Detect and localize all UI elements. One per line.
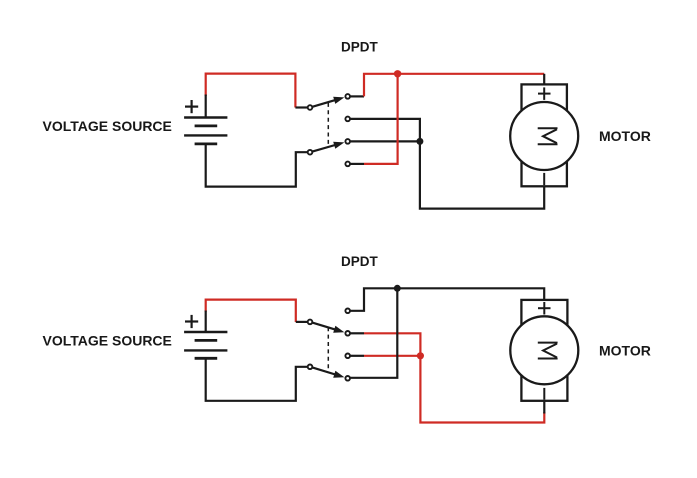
battery B2 plate short 1 (bottom circuit): [195, 339, 218, 342]
pole 2 contact circle (top circuit): [308, 150, 313, 155]
battery B1 plate short 1 (top circuit): [195, 125, 218, 128]
junction dot red (top circuit): [394, 70, 401, 77]
wire throw 2A to junction (black, top circuit): [350, 140, 420, 142]
throw 2B contact circle (bottom circuit): [345, 376, 350, 381]
wire battery top lead (black, bottom circuit): [205, 311, 207, 333]
motor M1 letter M rotated (top circuit): [538, 128, 558, 144]
junction dot red (bottom circuit): [417, 352, 424, 359]
switch S1 arm 1 arrowhead (top circuit): [333, 97, 344, 104]
pole 2 contact circle (bottom circuit): [308, 365, 313, 370]
pole 1 contact circle (bottom circuit): [308, 320, 313, 325]
switch S1 arm 1 line (top circuit): [311, 99, 339, 107]
wire battery top lead (black, top circuit): [205, 95, 207, 118]
wire motor- lead (black, bottom circuit): [543, 401, 545, 414]
junction dot black (bottom circuit): [394, 285, 401, 292]
motor M2 frame rect (bottom circuit): [521, 300, 567, 401]
svg-text:VOLTAGE SOURCE: VOLTAGE SOURCE: [43, 118, 172, 134]
battery B1 plus sign (top circuit): [185, 100, 198, 113]
battery B2 plate long 1 (bottom circuit): [184, 331, 227, 333]
switch S2 arm 2 arrowhead (bottom circuit): [333, 371, 344, 378]
wire throw 2A stub (black, bottom circuit): [350, 355, 364, 357]
switch S2 gang link dashed (bottom circuit): [327, 327, 329, 372]
svg-text:DPDT: DPDT: [341, 254, 379, 269]
wire red junction down to throw 2B (red, top circuit): [364, 74, 398, 164]
switch S2 arm 1 line (bottom circuit): [311, 322, 339, 330]
wire pole 1 stub (top circuit): [295, 106, 307, 108]
wire throw 1B to red junction (red, bottom circuit): [364, 333, 420, 356]
throw 1A contact circle (bottom circuit): [345, 309, 350, 314]
wire throw 1B to junction (black, top circuit): [350, 119, 420, 141]
switch S1 gang link dashed (top circuit): [327, 103, 329, 147]
wire red junction to motor- (red, bottom circuit): [420, 356, 544, 423]
motor M2 body circle (bottom circuit): [510, 316, 578, 384]
pole 1 contact circle (top circuit): [308, 105, 313, 110]
svg-text:MOTOR: MOTOR: [599, 342, 651, 358]
wire throw 1A to motor+ (red, top circuit): [364, 74, 544, 97]
svg-text:VOLTAGE SOURCE: VOLTAGE SOURCE: [43, 333, 172, 349]
switch S1 arm 2 arrowhead (top circuit): [333, 142, 344, 149]
throw 2A contact circle (bottom circuit): [345, 354, 350, 359]
motor M2 letter M rotated (bottom circuit): [538, 343, 558, 359]
battery B1 plate short 2 (top circuit): [195, 142, 218, 145]
throw 1B contact circle (top circuit): [345, 117, 350, 122]
wire motor+ drop (black, top circuit): [543, 74, 545, 85]
battery B2 plus sign (bottom circuit): [185, 315, 198, 328]
throw 2B contact circle (top circuit): [345, 162, 350, 167]
switch S2 arm 1 arrowhead (bottom circuit): [333, 326, 344, 333]
wire throw 1B stub (black, bottom circuit): [350, 332, 364, 334]
motor M1 frame rect (top circuit): [522, 84, 567, 186]
wire battery+ to pole 1 (red, bottom circuit): [206, 300, 296, 322]
throw 2A contact circle (top circuit): [345, 139, 350, 144]
motor M1 plus sign (top circuit): [538, 87, 551, 100]
wire throw 2A to red junction (red, bottom circuit): [364, 355, 420, 357]
battery B2 plate long 2 (bottom circuit): [184, 349, 227, 351]
throw 1A contact circle (top circuit): [345, 94, 350, 99]
motor M2 minus sign (bottom circuit): [543, 388, 545, 400]
wire pole 1 stub (bottom circuit): [296, 321, 308, 323]
wire battery- to pole 2 (black, bottom circuit): [206, 358, 308, 401]
switch S1 arm 2 line (top circuit): [311, 144, 339, 152]
switch S2 arm 2 line (bottom circuit): [311, 367, 339, 375]
svg-text:MOTOR: MOTOR: [599, 128, 651, 144]
wire black junction down to throw 2B (black, bottom circuit): [350, 288, 397, 378]
wire battery+ to pole 1 (red, top circuit): [206, 74, 296, 108]
svg-text:DPDT: DPDT: [341, 40, 379, 55]
wire junction to motor- (black, top circuit): [420, 141, 544, 208]
motor M1 body circle (top circuit): [510, 102, 578, 170]
motor M2 plus sign (bottom circuit): [538, 302, 551, 315]
wire throw 2B stub (black, top circuit): [350, 163, 364, 165]
motor M1 minus sign (top circuit): [543, 173, 545, 185]
throw 1B contact circle (bottom circuit): [345, 331, 350, 336]
wire throw 1A to motor+ (black, bottom circuit): [350, 288, 544, 311]
junction dot black (top circuit): [416, 138, 423, 145]
wire battery- to pole 2 (black, top circuit): [206, 144, 308, 187]
battery B2 plate short 2 (bottom circuit): [195, 357, 218, 360]
wire throw 1A stub (black, top circuit): [350, 95, 364, 97]
battery B1 plate long 1 (top circuit): [184, 116, 227, 118]
battery B1 plate long 2 (top circuit): [184, 134, 227, 136]
